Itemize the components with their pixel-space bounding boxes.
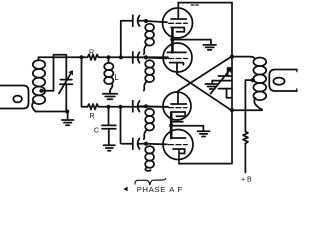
wire tap to variable capacitor top [42, 55, 67, 91]
node: V2 grid junction [144, 55, 148, 59]
wire branch vertical from node A down to lower channel [82, 57, 88, 107]
wire resistor to +B [244, 144, 246, 173]
svg-text:R: R [89, 113, 94, 120]
transformer T2 secondary (output loop) [269, 70, 297, 92]
variable capacitor C2 (across output primary) [211, 68, 232, 98]
svg-text:R: R [89, 50, 94, 57]
node: shunt capacitor junction [106, 105, 110, 109]
variable capacitor C1 (tuning) [59, 57, 73, 111]
wire V3 cathode to V4 plate [170, 112, 173, 138]
triode V4 [163, 130, 193, 160]
resistor R (top) [82, 55, 100, 61]
wire tap to resistor [245, 80, 252, 131]
triode V3 [163, 92, 191, 122]
triode V1 [163, 3, 193, 38]
node: bus top (transformer primary top) [230, 55, 234, 59]
capacitor (coupling to V4 grid) [133, 138, 146, 149]
node: bus bottom (transformer primary bottom) [230, 108, 234, 112]
node A (top rail junction) [79, 55, 83, 59]
ground (inductor L) [103, 92, 117, 100]
wire V4 cathode to bottom rail [178, 150, 180, 164]
node: primary tap [251, 78, 255, 82]
svg-text:F: F [178, 185, 183, 193]
wire V1 cathode to V2 plate [171, 28, 174, 52]
wire V3 grid lead [146, 105, 167, 108]
capacitor (coupling to V1 grid) [133, 15, 146, 26]
svg-text:L: L [115, 73, 120, 82]
wire V2 grid lead [146, 57, 167, 60]
node: riser junction top [119, 55, 123, 59]
annotation brace [135, 179, 166, 185]
grid coil (V2) [144, 60, 154, 90]
ground (variable capacitor rotor) [205, 81, 217, 89]
wire bottom rail to bus [179, 163, 231, 165]
ground (V1 cathode / V2 plate) [203, 45, 216, 50]
wire bottom rail of tank [36, 111, 67, 113]
node: V1 grid junction [144, 19, 148, 23]
resistor (plate supply) [243, 132, 248, 144]
wire top rail from coil to node A [39, 56, 82, 58]
wire right bus vertical [231, 3, 233, 164]
transformer T1 secondary coil [32, 58, 45, 112]
resistor R (bottom) [88, 104, 100, 110]
ground (tank circuit) [62, 112, 74, 126]
svg-text:PHASE: PHASE [137, 185, 166, 193]
wire link to ground lower [171, 126, 203, 131]
node: riser junction bottom [118, 105, 122, 109]
wire riser to V1 grid line [121, 21, 133, 58]
node: cathode-plate link [170, 38, 174, 42]
wire link to ground [172, 40, 211, 44]
tick marks on plate wire [191, 4, 198, 6]
node: V3 grid junction [144, 104, 148, 108]
node: shunt inductor junction [106, 55, 110, 59]
svg-text:C: C [94, 128, 99, 135]
grid coil (V4) [145, 146, 154, 171]
wire V1 grid lead [146, 21, 167, 22]
node: tank ground junction [65, 110, 69, 114]
triode V2 [163, 43, 192, 72]
wire riser to V4 grid line [121, 107, 133, 144]
capacitor C (shunt) [102, 107, 116, 145]
capacitor (coupling to V3 grid) [133, 101, 146, 112]
node: cathode-plate link lower [169, 123, 173, 127]
diagonal wire V3 plate to bus top node [178, 57, 231, 91]
wire top channel rail [100, 56, 169, 58]
diagonal wire V2 cathode to bus bottom node [177, 74, 231, 110]
wire V1 plate to bus [178, 2, 232, 4]
wire bus bottom node to primary bottom [232, 109, 262, 111]
grid coil (V3) [144, 109, 154, 139]
input source pictograph (left terminal loop) [0, 86, 29, 109]
transformer T2 primary coil [232, 57, 266, 110]
wire V2 cathode lead [176, 63, 178, 74]
inductor L (shunt) [104, 57, 113, 91]
ground (V3 cathode / V4 plate) [198, 131, 210, 136]
ground (shunt capacitor) [104, 145, 115, 150]
caption arrow [123, 187, 127, 192]
wire bottom channel rail [100, 106, 169, 108]
grid coil (V1) [144, 24, 154, 54]
wire V3 plate lead [177, 91, 179, 104]
wire V4 grid lead [146, 143, 167, 146]
capacitor (coupling to V2 grid) [133, 52, 146, 63]
node: V4 grid junction [144, 142, 148, 146]
svg-text:+ B: + B [241, 177, 252, 184]
node: coil tap dot [39, 89, 43, 93]
